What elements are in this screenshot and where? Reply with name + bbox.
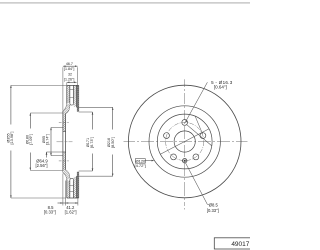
svg-text:[1.84"]: [1.84"] <box>64 67 74 71</box>
center bore edge lines in flange <box>63 131 66 152</box>
stud hole centerline bottom <box>59 160 69 162</box>
vent rib lines bottom <box>70 185 74 191</box>
vertical centerline <box>184 79 186 209</box>
section view: mounting flange bar <box>63 111 66 172</box>
section view: disc friction ring bottom half <box>67 172 79 198</box>
svg-text:Ø8.5: Ø8.5 <box>209 203 219 208</box>
section axis centerline <box>57 141 73 143</box>
section view: hat jog top (plate to flange, S-curve) <box>63 103 70 114</box>
svg-text:[4.72"]: [4.72"] <box>134 163 145 168</box>
steep leader line to upper-right bolt hole <box>195 116 203 134</box>
top border line of sheet <box>0 2 250 4</box>
bolt circle (dash-dot) <box>166 122 204 160</box>
long diagonal leader through hub to upper-right bolt hole <box>160 129 209 155</box>
svg-text:[13.98"]: [13.98"] <box>10 132 14 145</box>
svg-text:[1.26"]: [1.26"] <box>64 77 74 81</box>
svg-text:32: 32 <box>68 73 72 77</box>
annotation text Ø8.5 [0.33"] <box>207 203 219 213</box>
svg-text:[2.56"]: [2.56"] <box>36 163 48 168</box>
bolt hole lower-left <box>171 154 177 160</box>
hat outer circle <box>157 114 212 169</box>
leader dimension Ø64.9 [2.56"] center bore <box>36 152 63 168</box>
dimension Ø216 [8.50"] friction ring inner diameter <box>76 107 115 176</box>
svg-text:[3.74"]: [3.74"] <box>46 134 50 145</box>
svg-text:[0.33"]: [0.33"] <box>207 208 219 213</box>
svg-text:[0.64"]: [0.64"] <box>214 84 227 89</box>
bolt hole top <box>182 120 188 126</box>
dimension 8.5 [0.33"] flange thickness <box>44 174 66 215</box>
dimension 46.7 [1.84"] overall height <box>63 62 78 111</box>
dimension Ø355 [13.98"] outer diameter <box>6 85 67 198</box>
friction ring inner circle <box>149 106 220 177</box>
dimension Ø171 [6.73"] hat outer diameter <box>79 112 94 171</box>
svg-text:[1.62"]: [1.62"] <box>65 210 77 215</box>
svg-text:[0.33"]: [0.33"] <box>44 210 56 215</box>
outer diameter circle <box>128 85 241 198</box>
svg-text:46.7: 46.7 <box>66 62 73 66</box>
section view: disc friction ring top half (hatched plates) <box>67 85 79 111</box>
svg-text:[7.09"]: [7.09"] <box>29 134 33 145</box>
bolt hole upper-left <box>164 133 170 139</box>
section view: hat jog bottom (S-curve) <box>63 170 70 181</box>
horizontal centerline <box>124 141 248 143</box>
svg-text:49017: 49017 <box>231 241 249 248</box>
svg-text:[6.73"]: [6.73"] <box>90 137 94 148</box>
leader: 5-Ø16.3 to top bolt hole <box>185 82 207 122</box>
stud hole centerline top <box>59 122 69 124</box>
diagonal line from top bolt hole toward lower right <box>187 125 212 146</box>
svg-text:[8.50"]: [8.50"] <box>111 137 115 148</box>
vent rib lines top <box>70 89 74 97</box>
center bore circle <box>174 131 195 152</box>
dimension 41.2 [1.62"] hat depth <box>65 198 78 214</box>
annotation text 5 - Ø16.3 [0.64"] <box>211 80 233 90</box>
dimension Ø180 [7.09"] hat flange diameter <box>25 113 62 170</box>
set screw hole (hatched) <box>183 159 187 163</box>
leader: set screw hole to Ø8.5 text <box>185 163 209 205</box>
page background <box>0 0 250 250</box>
bolt hole upper-right <box>200 133 206 139</box>
dimension Ø95 [3.74"] pilot diameter <box>42 128 63 156</box>
dimension 32 [1.26"] disc thickness <box>64 73 77 85</box>
boxed annotation Ø120 [4.72"] bolt circle <box>134 158 154 168</box>
bolt hole lower-right <box>193 154 199 160</box>
